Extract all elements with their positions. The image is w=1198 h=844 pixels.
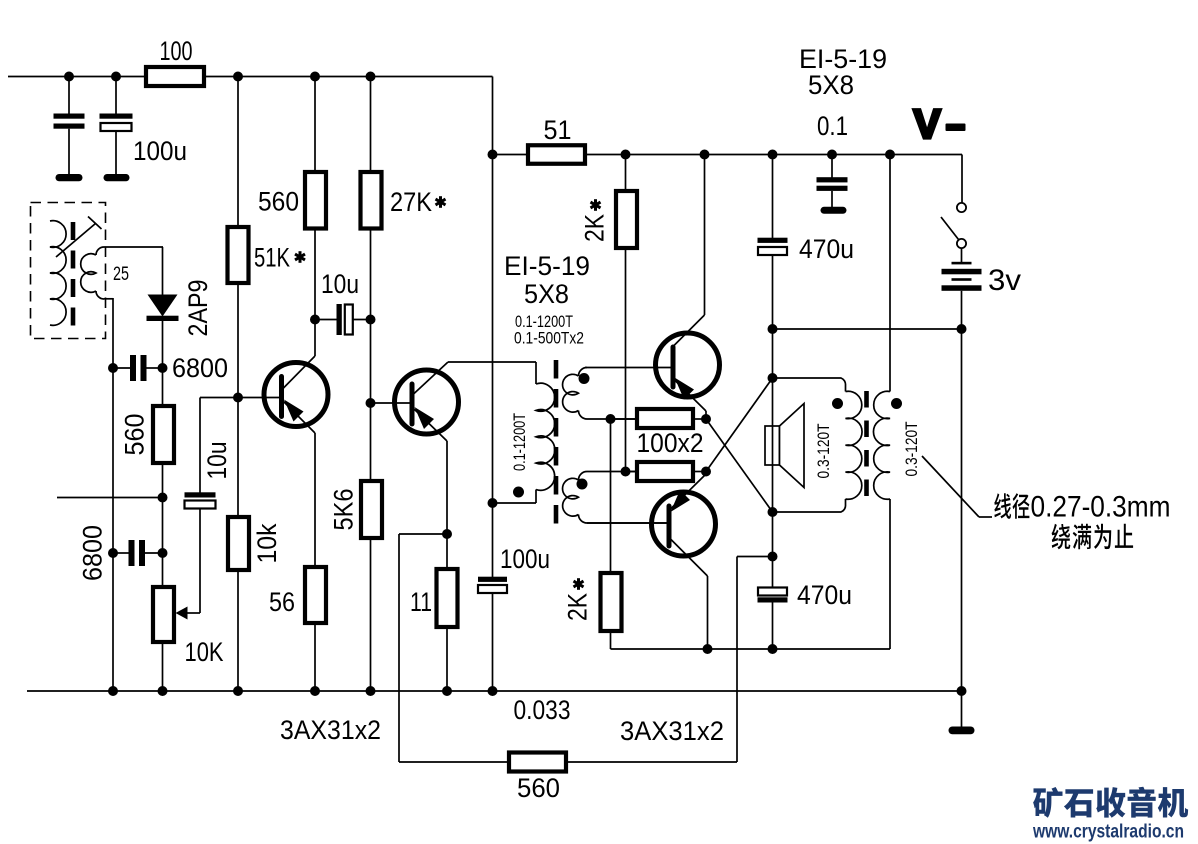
wire 6800a to R560: [162, 368, 164, 406]
node 497 junction: [158, 493, 168, 503]
node speaker bottom: [768, 507, 778, 517]
battery 3v: [952, 262, 972, 265]
svg-text:10K: 10K: [185, 637, 224, 667]
potentiometer 10K body: [153, 587, 174, 642]
node 6800a right: [158, 363, 168, 373]
wire R27K to 10u node: [370, 229, 372, 320]
wire 6800b to pot: [162, 553, 164, 587]
wire speaker top to body: [772, 378, 774, 426]
wire 100x2b left lead: [626, 471, 638, 473]
transistor Q4 emitter lead: [669, 474, 706, 511]
wire col370 rail to R27K: [370, 77, 372, 173]
wire V- rail to R51: [493, 154, 529, 156]
switch contact bottom: [957, 239, 966, 248]
svg-text:0.1-1200T: 0.1-1200T: [511, 413, 529, 471]
chassis bar under 0.1: [821, 207, 847, 214]
capacitor 100u plates: [100, 114, 133, 119]
svg-text:100x2: 100x2: [637, 428, 704, 458]
logo 矿石收音机: [1033, 787, 1188, 818]
wire 100x2a left lead: [611, 418, 638, 420]
resistor 11: [437, 569, 458, 627]
wire R560 to node497: [162, 463, 164, 498]
wire Q3 base: [585, 367, 672, 369]
resistor 560 collector load: [305, 172, 326, 229]
output transformer left lead top: [773, 377, 838, 379]
wire Q4 base: [587, 522, 669, 524]
capacitor C1 lead: [68, 77, 70, 115]
wire y329 to battery: [773, 328, 963, 330]
wire col492 down: [492, 155, 494, 504]
antenna coil secondary winding: [104, 246, 163, 248]
node 329 junction: [768, 324, 778, 334]
output transformer right polarity dot: [891, 398, 902, 409]
transistor Q3 emitter lead: [673, 379, 706, 412]
antenna coil primary winding: [50, 221, 66, 326]
transistor Q1 3AX31: [264, 363, 328, 427]
wire top rail: [8, 76, 493, 78]
wire battery col down: [961, 329, 963, 691]
svg-text:100: 100: [160, 36, 193, 66]
capacitor 6800 upper: [130, 355, 136, 381]
wire top rail corner down to V- rail: [492, 77, 494, 155]
node col447 bottom rail: [442, 686, 452, 696]
node y649 Q4 collector: [703, 644, 713, 654]
node 10u right: [366, 315, 376, 325]
wire V- rail: [585, 154, 962, 156]
wire 6800b left-lead: [113, 552, 129, 554]
svg-text:5X8: 5X8: [808, 70, 854, 100]
resistor 51K*: [228, 227, 249, 283]
node junction top rail / col-51K: [233, 72, 243, 82]
node col315 bottom rail: [310, 686, 320, 696]
capacitor 10u horizontal: [337, 304, 342, 335]
node junction top rail / C1: [64, 72, 74, 82]
svg-text:V: V: [913, 101, 941, 147]
wire diode to 6800a: [162, 321, 164, 368]
svg-text:6800: 6800: [172, 353, 228, 383]
output transformer core: [864, 391, 869, 498]
wire base node to 10k: [237, 398, 239, 518]
interstage secondary2 lead bottom: [579, 515, 588, 524]
svg-text:5X8: 5X8: [524, 279, 569, 309]
wire node497 to 6800b: [162, 498, 164, 554]
svg-text:11: 11: [410, 587, 432, 617]
node 100x2a right: [701, 414, 711, 424]
svg-text:470u: 470u: [799, 234, 854, 264]
svg-text:0.033: 0.033: [514, 695, 571, 725]
interstage transformer primary polarity dot: [513, 487, 524, 498]
wire stub to ground bar: [961, 691, 963, 727]
node V- rail Q3 col: [700, 150, 710, 160]
node V- rail 0.1 col: [827, 150, 837, 160]
interstage secondary1 winding: [563, 374, 579, 412]
wire Q1 emitter down: [314, 433, 316, 567]
wire 470ubottom to y649: [772, 603, 774, 650]
wire Q2 base node to 5K6: [370, 403, 372, 481]
node primary bottom junction: [488, 498, 498, 508]
interstage secondary2 lead top: [587, 471, 637, 473]
transistor Q4 collector lead: [669, 538, 708, 577]
wire Q2 emitter down: [446, 441, 448, 534]
speaker: [765, 426, 780, 465]
svg-text:3v: 3v: [988, 264, 1021, 297]
node feedback junction: [768, 552, 778, 562]
node Q2 base junction: [366, 398, 376, 408]
node junction top rail / C2: [111, 72, 121, 82]
wire output right top: [889, 155, 891, 392]
resistor 100x2 b: [637, 462, 693, 481]
capacitor 470u bottom: [758, 588, 787, 596]
node 6800b left: [108, 548, 118, 558]
transistor Q1 3AX31 collector lead: [283, 356, 316, 389]
wire col113 down: [112, 368, 114, 553]
resistor 560 input: [153, 406, 174, 463]
svg-text:10k: 10k: [252, 523, 282, 563]
chassis bar under C1: [56, 174, 83, 181]
node 100x2a left: [606, 414, 616, 424]
svg-text:56: 56: [269, 587, 295, 617]
capacitor 6800 lower: [129, 540, 135, 566]
node Q1 base junction: [233, 393, 243, 403]
wire Q1 base from cap10u col: [200, 397, 280, 399]
interstage transformer core: [554, 360, 559, 527]
wire pot to bottom rail: [162, 642, 164, 691]
transistor Q4 3AX31: [652, 492, 716, 556]
output transformer left winding 0.3-120T: [846, 391, 863, 499]
svg-text:560: 560: [120, 414, 150, 456]
switch lever: [941, 217, 959, 240]
resistor 2K* bottom: [601, 573, 622, 631]
interstage secondary2 winding: [563, 478, 579, 516]
antenna coil ferrite core: [71, 222, 76, 328]
capacitor 10u vertical: [185, 492, 216, 497]
wire to 470u bottom: [772, 557, 774, 589]
wire 2Ktop rail to R: [625, 155, 627, 192]
node V- rail 470u col: [768, 150, 778, 160]
wire Q4 emitter to speaker top node: [706, 378, 773, 472]
wire col315 rail to R560: [314, 77, 316, 173]
wire stub left at y497: [57, 497, 163, 499]
svg-text:27K: 27K: [390, 187, 432, 217]
wire switch to battery: [961, 248, 963, 262]
svg-text:0.27-0.3mm: 0.27-0.3mm: [1031, 491, 1171, 524]
wire R11 to bottom rail: [446, 627, 448, 691]
wire node329 to speaker top: [772, 329, 774, 378]
wire 470utop lead: [772, 155, 774, 239]
wire R51K to base node: [237, 283, 239, 398]
wire 100x2b right lead: [693, 471, 706, 473]
capacitor 100u lead: [115, 77, 117, 115]
node V- rail col492: [488, 150, 498, 160]
wire 0.1 stem: [831, 191, 833, 207]
node V- rail output transformer col: [885, 150, 895, 160]
node 100x2b right: [701, 467, 711, 477]
wire feedback down col399: [398, 534, 400, 762]
node col370 bottom rail: [366, 686, 376, 696]
wire cap10u col bottom: [199, 509, 201, 614]
svg-text:EI-5-19: EI-5-19: [504, 251, 590, 281]
node col238 bottom rail: [233, 686, 243, 696]
output transformer left polarity dot: [832, 398, 843, 409]
capacitor 0.1: [817, 177, 848, 182]
wire 6800a left-lead: [113, 367, 130, 369]
capacitor 100u mid: [478, 577, 507, 582]
svg-text:0.3-120T: 0.3-120T: [815, 424, 833, 479]
interstage secondary1 lead top: [579, 368, 588, 377]
wire 100u to bottom rail: [492, 593, 494, 691]
transistor Q2 collector lead: [413, 362, 448, 395]
transistor Q3 collector lead: [673, 315, 705, 347]
interstage transformer primary lead bottom: [535, 490, 537, 504]
wire 2Kbottom to y649: [610, 631, 612, 649]
svg-text:0.1-500Tx2: 0.1-500Tx2: [514, 330, 584, 348]
annotation pointer line: [922, 456, 979, 517]
capacitor 100u lead to chassis: [115, 131, 117, 174]
wire 2Kbottom col down: [610, 419, 612, 573]
wire Q2emitter to R11: [446, 534, 448, 569]
wire 0.1 lead: [831, 155, 833, 178]
wire 10u right lead: [353, 319, 371, 321]
node pot bottom rail: [158, 686, 168, 696]
node 10u left: [310, 315, 320, 325]
antenna coil tuning arrow: [56, 224, 96, 258]
svg-text:470u: 470u: [797, 580, 852, 610]
svg-text:560: 560: [258, 187, 299, 217]
wire col238 rail to R51K: [237, 77, 239, 228]
node battery y329: [957, 324, 967, 334]
node col492 bottom rail: [488, 686, 498, 696]
svg-text:3AX31x2: 3AX31x2: [280, 715, 381, 745]
wire 6800a right-lead: [147, 367, 163, 369]
svg-text:10u: 10u: [202, 442, 232, 480]
svg-text:100u: 100u: [500, 544, 550, 574]
svg-text:6800: 6800: [78, 525, 108, 581]
resistor 56: [305, 567, 326, 623]
wire 2Ktop to node471: [625, 248, 627, 472]
svg-text:10u: 10u: [321, 269, 359, 299]
resistor 51: [528, 145, 585, 164]
transistor Q1 emitter lead: [283, 401, 316, 434]
transistor Q3 3AX31: [656, 333, 720, 397]
wire speaker body to bottom node: [772, 426, 774, 512]
wire ant secondary to diode col: [112, 298, 114, 368]
svg-text:2K: 2K: [580, 214, 610, 242]
wire 100x2a right lead: [693, 418, 706, 420]
wire 10u node to Q1 collector: [314, 320, 316, 357]
svg-text:0.3-120T: 0.3-120T: [903, 422, 921, 477]
node junction top rail / col-27K: [366, 72, 376, 82]
node 6800a left: [108, 363, 118, 373]
svg-text:0.1: 0.1: [817, 111, 848, 141]
interstage transformer primary lead top: [535, 362, 537, 384]
resistor 10k: [228, 517, 249, 570]
svg-text:560: 560: [517, 773, 560, 803]
resistor 100x2 a: [637, 409, 693, 428]
wire cap10u col top: [199, 398, 201, 493]
node 6800b right: [158, 548, 168, 558]
svg-text:25: 25: [113, 264, 129, 285]
wire emitter node left: [399, 533, 447, 535]
node battery bottom rail: [957, 686, 967, 696]
node V- rail 2K col: [621, 150, 631, 160]
output transformer right winding 0.3-120T: [873, 391, 890, 499]
transistor Q2 3AX31: [395, 370, 459, 434]
wire 5K6 to bottom rail: [370, 538, 372, 691]
resistor 100: [146, 67, 204, 86]
wire battery to node329: [961, 291, 963, 329]
wire V- rail corner to switch: [961, 155, 963, 204]
wire 56 to bottom rail: [314, 623, 316, 691]
annotation 线径: [994, 493, 1029, 519]
wire bottom rail: [27, 690, 962, 692]
diode 2AP9: [148, 295, 178, 317]
node 100x2b left: [621, 467, 631, 477]
antenna coil dashed box: [31, 203, 106, 339]
svg-text:5K6: 5K6: [329, 489, 359, 531]
wire feedback up: [736, 557, 738, 763]
wire diode column top: [162, 247, 164, 295]
ground bar: [949, 727, 975, 735]
svg-text:www.crystalradio.cn: www.crystalradio.cn: [1032, 822, 1184, 843]
wire 10u node to Q2 base node: [370, 320, 372, 404]
wire Q2 base: [371, 402, 411, 404]
resistor 560 feedback: [509, 753, 566, 772]
annotation 绕满为止: [1052, 524, 1134, 550]
svg-text:51K: 51K: [254, 243, 290, 273]
interstage secondary1 polarity dot: [579, 373, 590, 384]
wire col113 to bottom rail: [112, 553, 114, 691]
svg-text:2K: 2K: [563, 593, 593, 621]
wire output right bottom: [889, 499, 891, 649]
svg-text:100u: 100u: [133, 136, 187, 166]
node col113 bottom rail: [108, 686, 118, 696]
wire R560 to 10u node: [314, 229, 316, 320]
wire feedback right: [566, 761, 737, 763]
capacitor 470u top: [758, 238, 788, 243]
svg-text:51: 51: [544, 115, 572, 145]
wire 10k to bottom rail: [237, 570, 239, 691]
interstage secondary1 lead bottom: [579, 411, 588, 420]
transistor Q2 emitter lead: [413, 408, 447, 441]
wire 6800b right-lead: [145, 552, 163, 554]
wire Q3 collector col: [704, 155, 706, 316]
interstage transformer primary winding 0.1-1200T: [536, 383, 555, 490]
resistor 2K* top: [616, 191, 637, 248]
wire 10u left lead: [315, 319, 337, 321]
node y649 470u: [768, 644, 778, 654]
capacitor C1 plates: [54, 114, 85, 119]
resistor 27K*: [361, 172, 382, 229]
svg-text:2AP9: 2AP9: [183, 280, 213, 337]
svg-text:0.1-1200T: 0.1-1200T: [515, 313, 573, 331]
svg-text:3AX31x2: 3AX31x2: [620, 716, 724, 746]
chassis bar under 100u: [104, 174, 130, 181]
wire col492 to 100u: [492, 503, 494, 577]
wire feedback bottom: [399, 761, 509, 763]
output transformer left lead bottom: [838, 499, 846, 512]
potentiometer 10K wiper arrow: [187, 612, 200, 614]
interstage secondary2 polarity dot: [577, 479, 588, 490]
node Q2 emitter junction: [442, 529, 452, 539]
wire Q3 emitter to speaker bottom node: [706, 419, 773, 512]
wire 470utop to node329: [772, 255, 774, 329]
node speaker top: [768, 373, 778, 383]
wire speaker bottom down: [772, 512, 774, 557]
wire feedback to node: [737, 556, 773, 558]
node junction top rail / col-560: [310, 72, 320, 82]
resistor 5K6: [361, 481, 382, 538]
switch contact top: [957, 203, 966, 212]
capacitor C1 lead to chassis: [68, 129, 70, 174]
